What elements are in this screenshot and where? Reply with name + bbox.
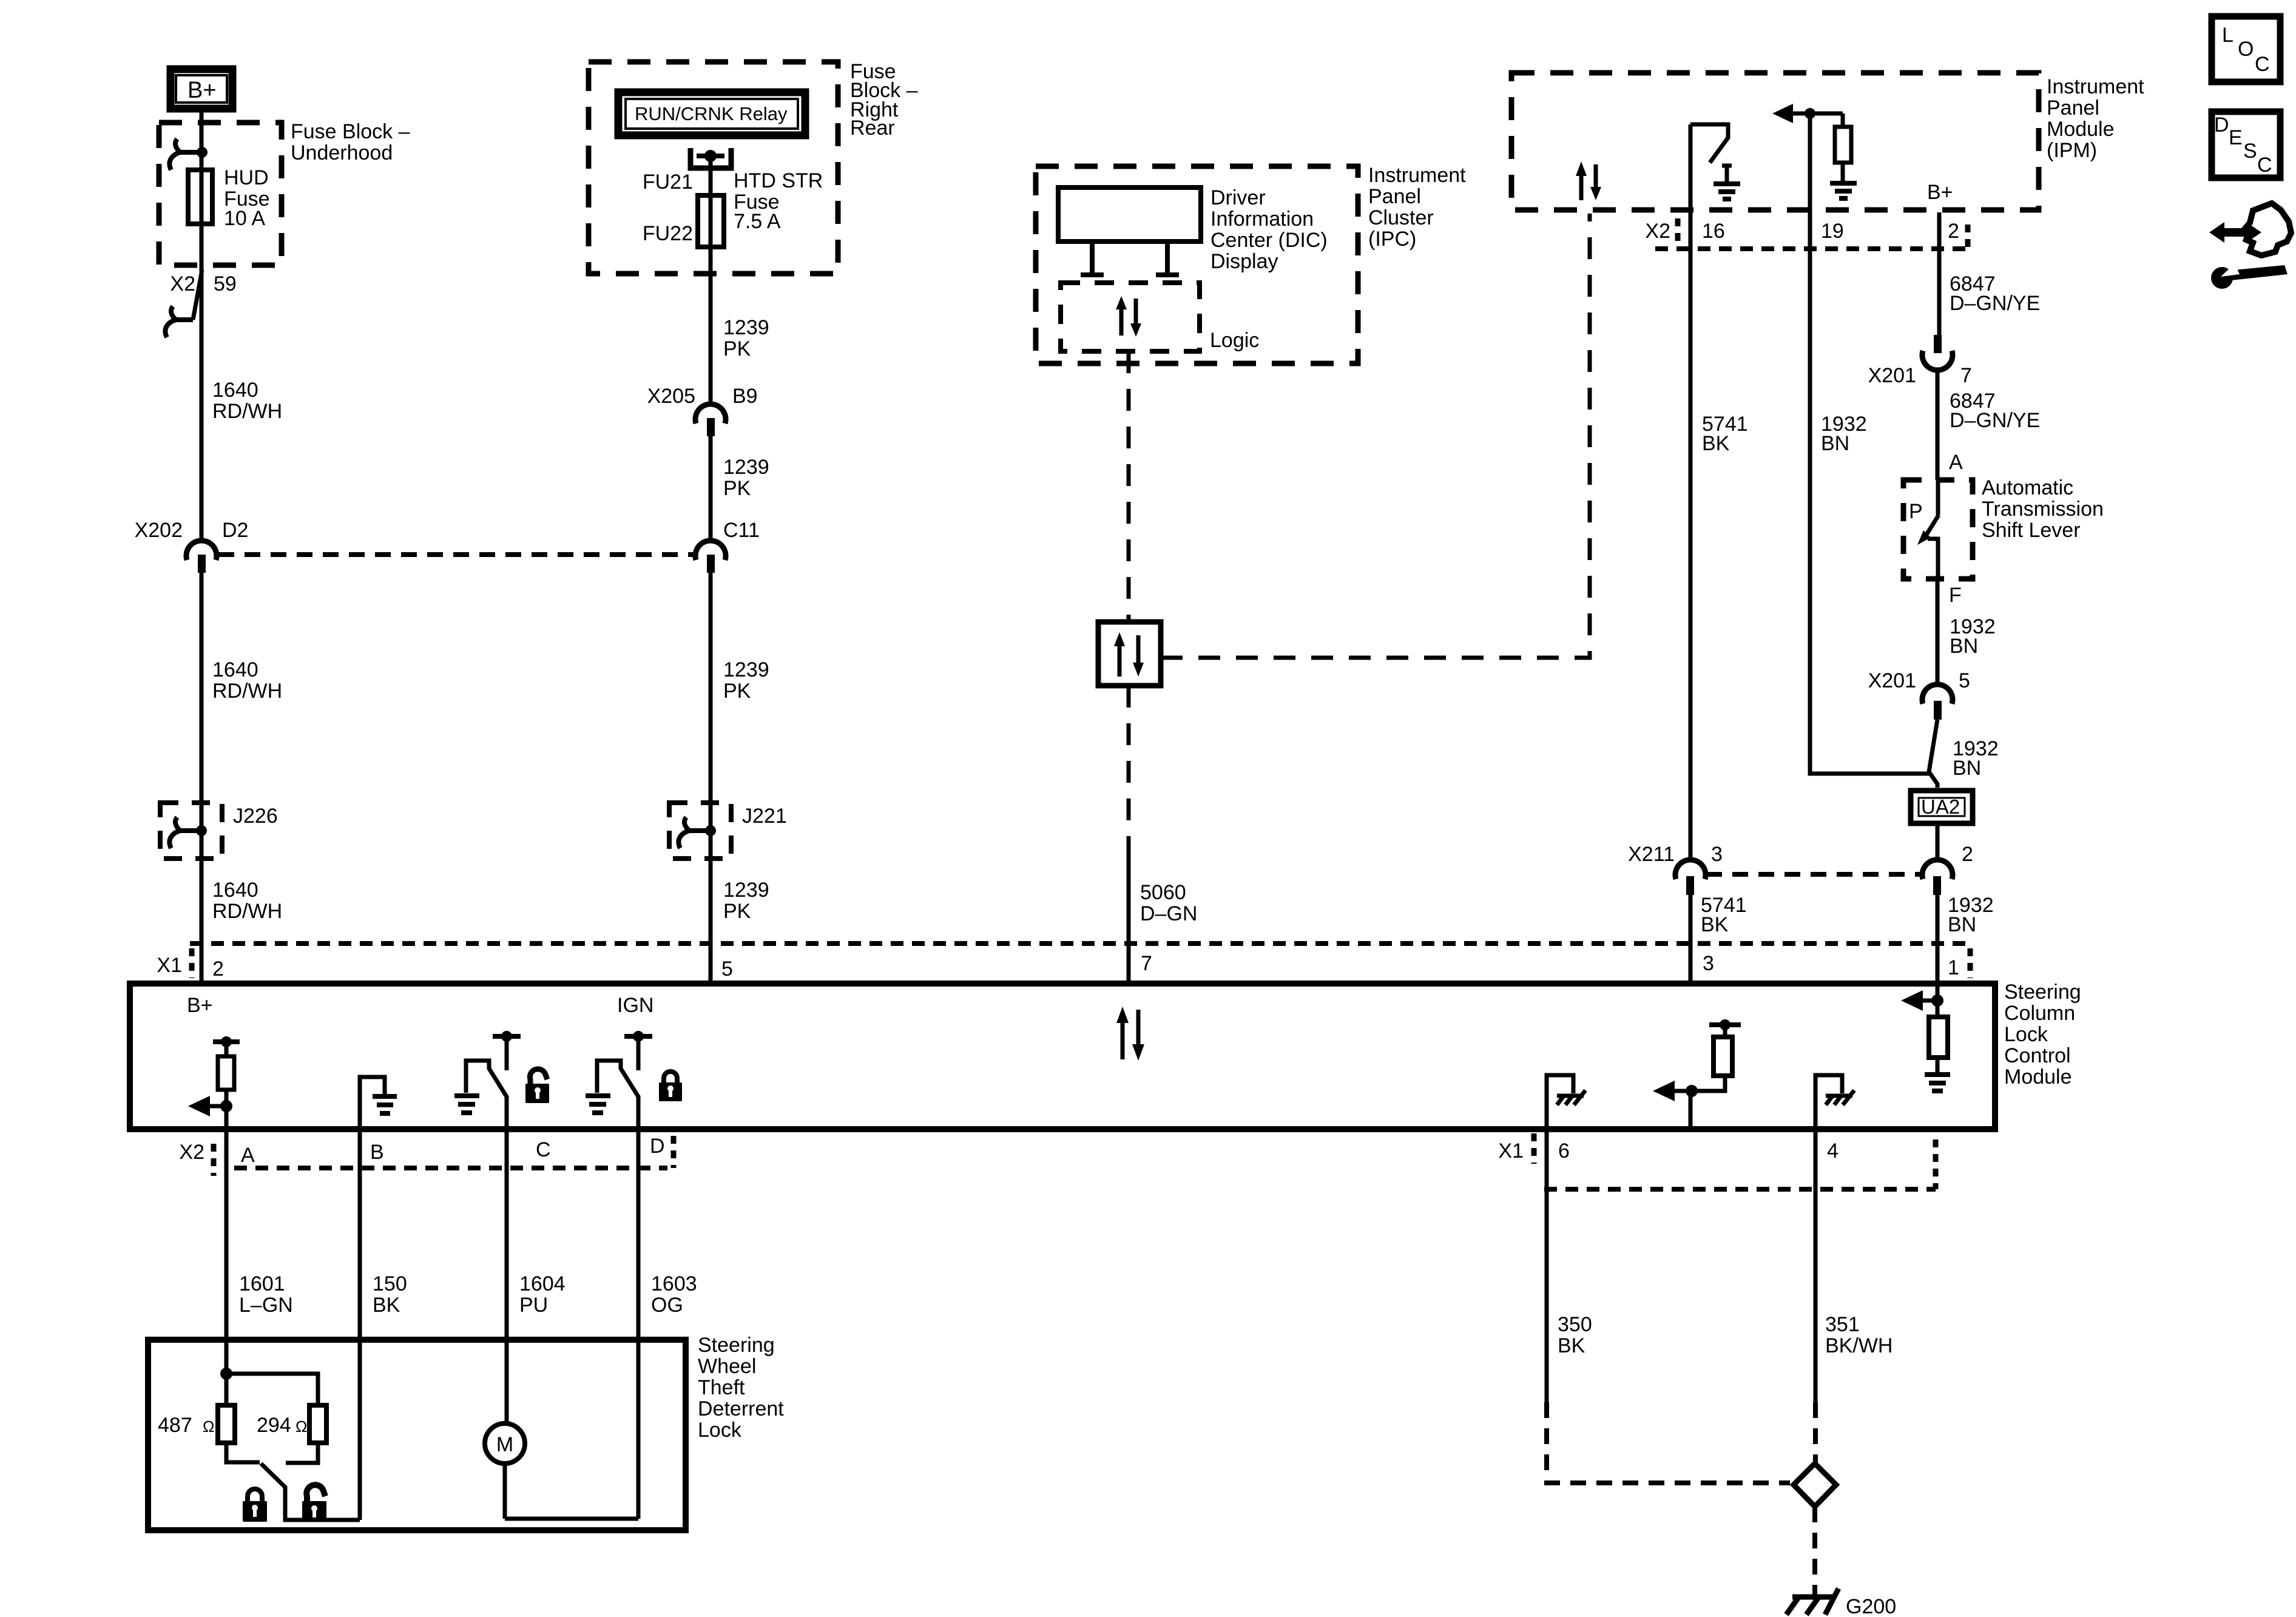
svg-text:BN: BN: [1948, 913, 1976, 936]
svg-text:1604: 1604: [519, 1272, 566, 1295]
svg-text:J226: J226: [233, 805, 278, 828]
label 487 ohm: [158, 1414, 214, 1437]
connector C11: [695, 519, 760, 573]
svg-text:X205: X205: [647, 385, 695, 408]
connector X211 pin 3: [1628, 843, 1723, 895]
svg-text:Lock: Lock: [2004, 1023, 2048, 1046]
shift lever switch blade: [1917, 480, 1939, 579]
svg-text:X1: X1: [157, 954, 182, 977]
wire 1932 BN slanted to junction: [1929, 720, 1937, 788]
connector X201 pin 5: [1868, 669, 1970, 720]
svg-text:PK: PK: [723, 900, 751, 923]
wire 1601 L-GN pin A: [225, 1129, 229, 1374]
svg-text:1239: 1239: [723, 456, 769, 479]
svg-text:B: B: [370, 1141, 384, 1164]
resistor pin 1 branch: [1929, 1017, 1948, 1058]
resistor pin A branch: [218, 1056, 234, 1090]
svg-text:X1: X1: [1498, 1139, 1524, 1163]
svg-text:487: 487: [158, 1414, 192, 1437]
svg-text:Instrument: Instrument: [1368, 164, 1466, 187]
svg-text:B+: B+: [187, 78, 217, 103]
relay RUN/CRNK Relay: [618, 92, 805, 135]
label 1932 BN lower: [1948, 894, 1994, 936]
instrument panel module IPM box: [1511, 73, 2039, 210]
svg-text:5: 5: [1959, 669, 1970, 692]
svg-text:Information: Information: [1210, 208, 1314, 231]
label Instrument Panel Cluster (IPC): [1368, 164, 1466, 251]
pin 5 label: [721, 957, 733, 981]
label 6847 D-GN/YE upper: [1950, 272, 2040, 315]
wire 1239 PK third: [709, 573, 713, 984]
svg-text:Theft: Theft: [698, 1376, 745, 1399]
label 5741 BK lower: [1701, 894, 1747, 936]
svg-text:1239: 1239: [723, 879, 769, 902]
svg-text:S: S: [2243, 140, 2257, 163]
svg-text:1640: 1640: [212, 658, 258, 681]
svg-text:Ω: Ω: [295, 1417, 307, 1436]
open padlock icon in lock box: [302, 1485, 326, 1522]
svg-text:7: 7: [1141, 952, 1152, 975]
svg-text:Automatic: Automatic: [1982, 476, 2073, 499]
svg-text:Cluster: Cluster: [1368, 206, 1434, 229]
wire 1932 BN below shift lever: [1936, 579, 1940, 685]
wire 1603 OG pin D: [636, 1129, 641, 1519]
LOC reference box: [2212, 16, 2280, 82]
svg-text:Wheel: Wheel: [698, 1355, 756, 1378]
ground G200: [1786, 1588, 1838, 1615]
svg-text:BN: BN: [1821, 432, 1849, 455]
svg-text:RUN/CRNK Relay: RUN/CRNK Relay: [635, 103, 788, 124]
svg-text:BK: BK: [1701, 913, 1729, 936]
svg-text:Lock: Lock: [698, 1419, 742, 1442]
pin 7 label: [1141, 952, 1152, 975]
svg-text:5: 5: [721, 957, 733, 981]
label 1932 BN below F: [1950, 615, 1996, 658]
svg-text:16: 16: [1702, 220, 1725, 243]
label 150 BK: [373, 1272, 407, 1317]
svg-text:BK: BK: [1702, 432, 1730, 455]
label 1239 PK third: [723, 658, 769, 703]
svg-text:IGN: IGN: [617, 994, 653, 1017]
label 1932 BN at junction: [1953, 737, 1999, 780]
label 1640 RD/WH middle: [212, 658, 282, 703]
resistor 294 ohm: [309, 1405, 326, 1443]
serial data wire logic to gateway: [1127, 351, 1131, 622]
label HTD STR Fuse 7.5 A: [734, 169, 823, 233]
pull-up resistor branch in IPM (pin 19): [1772, 104, 1843, 210]
connector row X1 below module right: [1498, 1133, 1936, 1189]
label FU22: [643, 222, 693, 245]
svg-text:L–GN: L–GN: [239, 1294, 293, 1317]
label 1239 PK fourth: [723, 879, 769, 923]
motor M: [485, 1423, 638, 1519]
label Driver Information Center (DIC) Display: [1210, 186, 1328, 273]
svg-text:Center (DIC): Center (DIC): [1210, 229, 1328, 252]
svg-text:A: A: [241, 1144, 255, 1167]
wire 6847 D-GN/YE lower: [1936, 370, 1940, 480]
label 5741 BK upper: [1702, 413, 1748, 455]
svg-text:M: M: [496, 1433, 513, 1456]
pin 2 label: [212, 957, 224, 981]
pin 1 label: [1948, 956, 1959, 979]
wire 1932 BN lower: [1936, 895, 1940, 984]
wire 1239 PK second: [709, 436, 713, 539]
svg-text:150: 150: [373, 1272, 407, 1295]
serial data arrows in module: [1116, 1007, 1144, 1061]
label Steering Wheel Theft Deterrent Lock: [698, 1334, 784, 1442]
label 1601 L-GN: [239, 1272, 293, 1317]
svg-text:19: 19: [1821, 220, 1844, 243]
steering column lock control module box: [130, 984, 1995, 1129]
DIC display leg right: [1156, 241, 1179, 275]
label P contact: [1909, 500, 1923, 523]
label Logic: [1210, 329, 1259, 352]
label X1 top row: [157, 954, 182, 977]
pin 3 label: [1703, 952, 1714, 975]
svg-text:350: 350: [1558, 1313, 1592, 1336]
wire B+ to fuse block: [200, 112, 204, 152]
svg-text:1640: 1640: [212, 379, 258, 402]
wire 6847 D-GN/YE from B+: [1937, 212, 1942, 335]
connector row X2 below module: [179, 1135, 674, 1176]
svg-text:1603: 1603: [651, 1272, 697, 1295]
label 5060 D-GN: [1140, 881, 1197, 925]
svg-text:HTD STR: HTD STR: [734, 169, 823, 192]
label Automatic Transmission Shift Lever: [1982, 476, 2104, 542]
svg-text:Fuse Block –: Fuse Block –: [291, 120, 410, 143]
DESC reference box: [2212, 112, 2280, 178]
svg-text:RD/WH: RD/WH: [212, 900, 282, 923]
connector X2 pin 59 labels: [170, 272, 236, 295]
junction arrow pin 3 in module: [1653, 1076, 1725, 1129]
dashed wire to splice diamond: [1813, 1402, 1818, 1463]
svg-text:D: D: [2214, 113, 2229, 137]
svg-text:Logic: Logic: [1210, 329, 1259, 352]
svg-text:D: D: [650, 1135, 665, 1158]
svg-text:O: O: [2238, 38, 2254, 61]
svg-text:B+: B+: [187, 994, 213, 1017]
relay output terminal bracket: [690, 148, 731, 195]
svg-text:X2: X2: [1645, 220, 1670, 243]
svg-text:X201: X201: [1868, 364, 1916, 387]
label 1640 RD/WH upper: [212, 379, 282, 423]
label FU21: [643, 170, 693, 194]
hand with arrow and wrench icon: [2209, 203, 2291, 289]
wire 351 BK/WH pin 4: [1814, 1129, 1818, 1402]
resistor 487 ohm: [218, 1405, 235, 1443]
svg-text:1239: 1239: [723, 658, 769, 681]
svg-text:(IPM): (IPM): [2047, 139, 2097, 162]
closed padlock icon in lock box: [243, 1489, 267, 1522]
svg-text:L: L: [2222, 24, 2234, 47]
svg-text:PK: PK: [723, 477, 751, 500]
svg-text:3: 3: [1703, 952, 1714, 975]
label 294 ohm: [257, 1414, 307, 1437]
svg-text:FU21: FU21: [643, 170, 693, 194]
svg-text:Steering: Steering: [2004, 981, 2081, 1004]
logic box in IPC: [1061, 283, 1200, 351]
svg-text:D–GN/YE: D–GN/YE: [1950, 409, 2040, 432]
label Fuse Block - Underhood: [291, 120, 410, 164]
label 1932 BN upper: [1821, 413, 1867, 455]
harness dashed link X202 to C11: [218, 552, 693, 557]
wire 150 BK pin B: [358, 1129, 362, 1520]
svg-text:D–GN/YE: D–GN/YE: [1950, 292, 2040, 315]
svg-text:C: C: [536, 1138, 551, 1161]
svg-text:Module: Module: [2047, 118, 2115, 141]
svg-text:BN: BN: [1953, 757, 1981, 780]
ground for unlock switch: [454, 1096, 479, 1113]
label Instrument Panel Module (IPM): [2047, 75, 2144, 162]
fuse block right rear box: [589, 62, 838, 274]
resistor pin 3 branch: [1714, 1037, 1732, 1076]
svg-text:B+: B+: [1927, 181, 1953, 204]
dashed ground path 350 BK: [1547, 1402, 1790, 1483]
svg-text:PK: PK: [723, 337, 751, 360]
label 1604 PU: [519, 1272, 566, 1317]
svg-text:1601: 1601: [239, 1272, 285, 1295]
ground in IPM under resistor: [1830, 163, 1857, 198]
svg-text:Module: Module: [2004, 1065, 2072, 1089]
connector row X1 dashed line: [190, 944, 1970, 978]
svg-text:Control: Control: [2004, 1044, 2071, 1067]
wire 5060 D-GN solid: [1127, 845, 1131, 984]
svg-text:Steering: Steering: [698, 1334, 775, 1357]
label 1640 RD/WH lower: [212, 879, 282, 923]
terminal T-bar pin 3 branch: [1709, 1019, 1741, 1037]
svg-text:A: A: [1949, 451, 1963, 474]
fuse HTD STR 7.5A (FU21/FU22): [698, 195, 724, 247]
switch to ground in IPM (pin 16): [1690, 124, 1728, 210]
wire and arrow junction pin A: [188, 1090, 232, 1129]
svg-text:Underhood: Underhood: [291, 141, 393, 164]
svg-text:X2: X2: [179, 1141, 204, 1164]
resistor in IPM: [1835, 127, 1851, 163]
label 351 BK/WH: [1825, 1313, 1893, 1357]
svg-text:1640: 1640: [212, 879, 258, 902]
svg-text:3: 3: [1711, 843, 1723, 866]
serial data arrows in gateway box: [1114, 632, 1144, 677]
closed padlock icon pin D: [659, 1072, 682, 1101]
serial data gateway box: [1098, 622, 1161, 686]
wire 1640 RD/WH upper: [200, 265, 204, 539]
svg-text:OG: OG: [651, 1294, 683, 1317]
wire 1640 RD/WH lower: [200, 573, 204, 984]
wire UA2 to connector 2: [1936, 825, 1940, 860]
svg-text:PK: PK: [723, 680, 751, 703]
svg-text:C: C: [2257, 154, 2272, 177]
svg-text:Column: Column: [2004, 1002, 2075, 1025]
instrument panel cluster IPC box: [1036, 166, 1358, 363]
svg-text:7.5 A: 7.5 A: [734, 210, 781, 233]
svg-text:Panel: Panel: [2047, 96, 2099, 120]
unlock switch pin C in module: [466, 1031, 521, 1129]
label IGN in module: [617, 994, 653, 1017]
svg-text:UA2: UA2: [1921, 795, 1960, 818]
shift lever switch box: [1903, 480, 1973, 579]
svg-text:Display: Display: [1210, 250, 1278, 273]
svg-text:B9: B9: [732, 385, 758, 408]
splice J221: [669, 803, 787, 859]
connector X201 pin 7: [1868, 335, 1972, 387]
svg-text:BK/WH: BK/WH: [1825, 1334, 1893, 1357]
svg-text:X211: X211: [1628, 843, 1675, 866]
svg-text:Rear: Rear: [850, 116, 895, 140]
serial data arrows in IPM: [1576, 161, 1601, 200]
svg-text:5060: 5060: [1140, 881, 1186, 904]
connector UA2: [1911, 791, 1973, 823]
splice J226: [160, 803, 278, 859]
lock position switch: [226, 1443, 360, 1520]
label contact A: [1949, 451, 1963, 474]
svg-text:Driver: Driver: [1210, 186, 1266, 209]
svg-text:1239: 1239: [723, 316, 769, 339]
splice diamond: [1794, 1463, 1836, 1507]
chassis ground pin 4 in module: [1815, 1075, 1854, 1129]
connector X205 pin B9: [647, 385, 758, 436]
wire 1239 PK from fuse: [709, 247, 713, 405]
svg-text:351: 351: [1825, 1313, 1860, 1336]
svg-text:Panel: Panel: [1368, 185, 1421, 208]
ground for lock switch: [586, 1096, 610, 1113]
serial data wire gateway to IPM: [1161, 214, 1590, 658]
harness dashed link X211 to UA2 connector: [1706, 872, 1921, 877]
svg-text:6: 6: [1558, 1139, 1570, 1163]
label B+ in module: [187, 994, 213, 1017]
label 6847 D-GN/YE lower: [1950, 390, 2040, 432]
svg-text:10 A: 10 A: [224, 207, 265, 230]
DIC display leg left: [1081, 241, 1104, 275]
label HUD Fuse 10 A: [224, 166, 270, 230]
svg-text:X2: X2: [170, 272, 195, 295]
label Steering Column Lock Control Module: [2004, 981, 2081, 1089]
svg-text:BN: BN: [1950, 635, 1978, 658]
svg-text:Instrument: Instrument: [2047, 75, 2144, 98]
wire through fuse: [200, 152, 204, 265]
ground pin B in module: [360, 1077, 397, 1129]
svg-text:E: E: [2229, 126, 2243, 149]
bus terminal hook in fuse block: [169, 139, 208, 170]
svg-text:2: 2: [1948, 220, 1959, 243]
svg-text:1: 1: [1948, 956, 1959, 979]
svg-text:BK: BK: [1558, 1334, 1585, 1357]
lock switch pin D in module: [597, 1031, 652, 1129]
svg-text:Transmission: Transmission: [1982, 498, 2104, 521]
label B+ in IPM: [1927, 181, 1953, 204]
label contact F: [1949, 584, 1962, 607]
svg-text:X202: X202: [135, 519, 183, 542]
wire 350 BK pin 6: [1545, 1129, 1549, 1402]
svg-text:7: 7: [1960, 364, 1972, 387]
svg-text:F: F: [1949, 584, 1962, 607]
wire 1604 PU pin C: [505, 1129, 509, 1425]
junction dot lock sensor: [220, 1368, 318, 1405]
svg-text:G200: G200: [1846, 1595, 1896, 1617]
svg-text:294: 294: [257, 1414, 291, 1437]
svg-text:D2: D2: [222, 519, 248, 542]
label 1239 PK first: [723, 316, 769, 360]
svg-text:FU22: FU22: [643, 222, 693, 245]
label Fuse Block - Right Rear: [850, 60, 918, 140]
serial data arrows in logic box: [1116, 296, 1141, 337]
svg-text:Shift Lever: Shift Lever: [1982, 519, 2081, 542]
svg-text:C: C: [2255, 53, 2270, 76]
open padlock icon pin C: [525, 1069, 549, 1103]
connector pin 2 below UA2: [1922, 843, 1973, 895]
svg-text:59: 59: [214, 272, 237, 295]
wire 5741 BK upper: [1689, 210, 1693, 860]
svg-text:(IPC): (IPC): [1368, 228, 1416, 251]
terminal T-bar pin A branch: [213, 1036, 240, 1056]
svg-text:D–GN: D–GN: [1140, 902, 1197, 925]
svg-text:Ω: Ω: [203, 1417, 214, 1436]
power symbol B+ (battery feed): [171, 69, 232, 109]
svg-text:4: 4: [1827, 1139, 1838, 1163]
connector row X2 of IPM: [1645, 218, 1968, 249]
connector X202 pin D2: [135, 519, 249, 573]
steering wheel theft deterrent lock box: [148, 1340, 686, 1530]
fuse HUD 10A: [188, 170, 212, 224]
ground in IPM under switch: [1714, 166, 1740, 199]
fuse block underhood box: [159, 123, 282, 265]
ground pin 1 branch: [1925, 1058, 1950, 1091]
svg-text:RD/WH: RD/WH: [212, 680, 282, 703]
svg-text:2: 2: [1962, 843, 1973, 866]
DIC display block: [1058, 187, 1201, 241]
serial data wire gateway down dashed: [1127, 686, 1131, 845]
label 1603 OG: [651, 1272, 697, 1317]
svg-text:RD/WH: RD/WH: [212, 400, 282, 423]
wire 5741 BK lower: [1689, 895, 1693, 984]
label G200: [1846, 1595, 1896, 1617]
chassis ground pin 6 in module: [1547, 1075, 1585, 1129]
svg-text:BK: BK: [373, 1294, 400, 1317]
svg-text:X201: X201: [1868, 669, 1916, 692]
junction arrow pin 1 in module: [1901, 984, 1943, 1017]
svg-text:J221: J221: [742, 805, 787, 828]
svg-text:PU: PU: [519, 1294, 548, 1317]
svg-text:P: P: [1909, 500, 1923, 523]
connector lead with hook below fuse block: [165, 270, 202, 337]
svg-text:HUD: HUD: [224, 166, 269, 189]
wire 1932 BN upper: [1810, 210, 1930, 774]
label 1239 PK second: [723, 456, 769, 500]
dashed wire diamond to G200: [1812, 1507, 1817, 1595]
label 350 BK: [1558, 1313, 1592, 1357]
svg-text:Deterrent: Deterrent: [698, 1397, 784, 1420]
svg-text:2: 2: [212, 957, 224, 981]
svg-text:C11: C11: [723, 519, 760, 542]
